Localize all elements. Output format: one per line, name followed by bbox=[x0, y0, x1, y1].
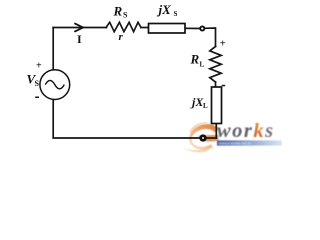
svg-text:works: works bbox=[217, 120, 275, 142]
svg-text:L: L bbox=[200, 61, 205, 69]
svg-text:L: L bbox=[203, 102, 208, 110]
svg-text:I: I bbox=[77, 32, 82, 46]
svg-text:+: + bbox=[36, 61, 42, 72]
svg-text:www.e-works.net.cn: www.e-works.net.cn bbox=[219, 141, 251, 145]
svg-text:R: R bbox=[113, 4, 123, 19]
svg-text:S: S bbox=[123, 11, 128, 20]
svg-text:S: S bbox=[174, 10, 178, 18]
svg-text:S: S bbox=[35, 79, 40, 88]
svg-text:r: r bbox=[119, 31, 124, 43]
svg-text:R: R bbox=[190, 52, 200, 67]
svg-text:+: + bbox=[220, 39, 226, 50]
svg-text:jX: jX bbox=[157, 2, 172, 17]
